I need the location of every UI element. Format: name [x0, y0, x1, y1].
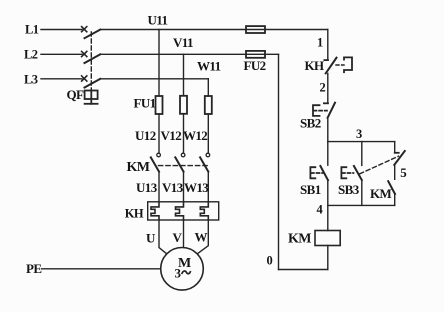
wire SB2 to node 3: [327, 118, 329, 142]
pushbutton SB2 NC contact arm: [328, 103, 335, 118]
QF pole 2 fixed-contact X mark: [82, 51, 87, 56]
SB2 actuator link dashes: [314, 110, 328, 112]
svg-text:V11: V11: [173, 35, 193, 50]
thermal relay KH NC contact arm: [326, 58, 337, 74]
wire KH contact to SB2: [327, 73, 329, 103]
svg-text:V: V: [173, 230, 183, 245]
svg-text:QF: QF: [67, 87, 85, 102]
wire left control rail: [278, 54, 280, 269]
svg-text:4: 4: [317, 202, 324, 216]
wire SB1 to node 4: [327, 180, 329, 205]
KH heater element phase V: [176, 202, 184, 220]
motor tilde mark: [182, 271, 190, 274]
wire KH to motor terminal W: [197, 220, 208, 254]
wire KM aux to node 4: [394, 194, 396, 205]
svg-text:U13: U13: [136, 180, 158, 195]
wire L2 left segment: [41, 53, 82, 55]
wire fuse W to KM contact: [207, 114, 209, 153]
svg-text:U: U: [146, 231, 156, 246]
wire coil to bottom return: [327, 246, 329, 270]
wire fuse U to KM contact: [158, 114, 160, 153]
wire SB3 to node 4: [361, 180, 363, 205]
wire L1 left segment: [41, 29, 82, 31]
QF pole 1 fixed-contact X mark: [82, 27, 87, 32]
wire right rail top drop: [327, 30, 329, 61]
svg-text:1: 1: [317, 36, 323, 50]
svg-text:W: W: [195, 230, 208, 245]
thermal overload relay KH body: [148, 202, 219, 220]
pushbutton SB3 NO contact arm: [354, 166, 362, 180]
wire KM pole V to KH: [183, 172, 185, 202]
wire control bottom return: [279, 269, 328, 271]
svg-text:L1: L1: [25, 23, 39, 37]
KH thermal release symbol: [344, 57, 352, 72]
svg-text:V13: V13: [162, 180, 184, 195]
svg-text:3: 3: [356, 127, 362, 141]
wire KM pole U to KH: [158, 172, 160, 202]
svg-text:KM: KM: [288, 231, 311, 246]
node 3 rail: [328, 141, 395, 143]
wire L3 row to W11 corner: [100, 78, 208, 80]
wire KH to motor terminal U: [159, 220, 167, 254]
svg-text:U12: U12: [135, 128, 156, 143]
SB3 to jog contact mechanical dashed link: [360, 156, 399, 174]
svg-text:KM: KM: [127, 160, 150, 175]
svg-text:U11: U11: [148, 13, 168, 28]
wire L3 left segment: [41, 78, 82, 80]
pushbutton SB1 actuator: [310, 167, 315, 178]
svg-text:0: 0: [267, 254, 273, 268]
svg-text:2: 2: [320, 80, 326, 94]
svg-text:5: 5: [400, 165, 407, 180]
QF pole 1 moving arm: [85, 30, 101, 39]
svg-text:SB2: SB2: [300, 116, 321, 131]
wire fuse V to KM contact: [183, 114, 185, 153]
pushbutton SB2 actuator: [313, 105, 320, 116]
svg-text:W11: W11: [197, 59, 221, 74]
svg-text:KM: KM: [370, 186, 392, 201]
svg-text:V12: V12: [161, 128, 182, 143]
svg-text:KH: KH: [305, 58, 325, 73]
fuse FU1 phase U: [156, 96, 163, 114]
wire V11 drop: [183, 54, 185, 96]
wire SB3 branch upper: [361, 142, 363, 166]
QF pole 2 moving arm: [85, 54, 101, 63]
wire PE to motor frame: [42, 268, 161, 270]
KM main contacts mechanical link dashed line: [159, 165, 210, 167]
wire KM pole W to KH: [207, 172, 209, 202]
wire U11 drop: [158, 30, 160, 97]
wire node3 to SB1: [327, 142, 329, 166]
circuit breaker QF operator symbol: [85, 91, 98, 104]
contactor KM main contact pole W: [200, 153, 210, 171]
wire node 4 to coil: [327, 205, 329, 230]
SB3 actuator link dashes: [342, 172, 354, 174]
KH heater element phase U: [151, 202, 159, 220]
pushbutton SB1 NO contact arm: [320, 166, 328, 180]
SB1 actuator link dashes: [311, 172, 323, 174]
svg-text:FU2: FU2: [244, 58, 266, 73]
contactor KM main contact pole U: [151, 153, 161, 171]
QF pole 3 fixed-contact X mark: [82, 76, 87, 81]
wire L1/U11 row to control corner: [100, 29, 328, 31]
contactor coil KM: [315, 231, 340, 246]
svg-text:SB1: SB1: [300, 182, 321, 197]
svg-text:FU1: FU1: [134, 96, 156, 111]
SB3 NC jog contact seat: [395, 152, 399, 154]
svg-text:L3: L3: [24, 72, 38, 86]
KH contact link dashes: [336, 64, 344, 66]
svg-text:KH: KH: [125, 207, 144, 221]
svg-text:W13: W13: [184, 180, 209, 195]
svg-text:SB3: SB3: [338, 182, 360, 197]
pushbutton SB3 actuator: [341, 167, 346, 178]
wire KH to motor terminal V: [183, 220, 185, 248]
thermal relay KH NC contact seat: [324, 59, 328, 61]
wire L2/V11 row to left control rail: [100, 53, 278, 55]
QF mechanical link dashed line: [90, 32, 92, 91]
svg-text:W12: W12: [183, 128, 207, 143]
fuse FU2 lower (from V11 row): [246, 51, 265, 58]
wire node 5 segment: [394, 165, 396, 179]
contactor KM main contact pole V: [175, 153, 185, 171]
wire jog branch upper: [394, 142, 396, 153]
svg-text:PE: PE: [26, 261, 41, 276]
fuse FU1 phase V: [180, 96, 187, 114]
fuse FU2 upper (from U11 row): [246, 26, 265, 33]
SB3 NC jog contact arm: [394, 151, 405, 165]
pushbutton SB2 NC contact seat: [324, 102, 328, 104]
wire W11 drop: [207, 79, 209, 96]
KH heater element phase W: [200, 202, 208, 220]
QF pole 3 moving arm: [85, 79, 101, 88]
fuse FU1 phase W: [205, 96, 212, 114]
node 4 rail: [328, 204, 395, 206]
contactor KM auxiliary NO contact arm: [388, 181, 395, 194]
motor M circle: [161, 247, 204, 290]
svg-text:L2: L2: [24, 48, 38, 62]
